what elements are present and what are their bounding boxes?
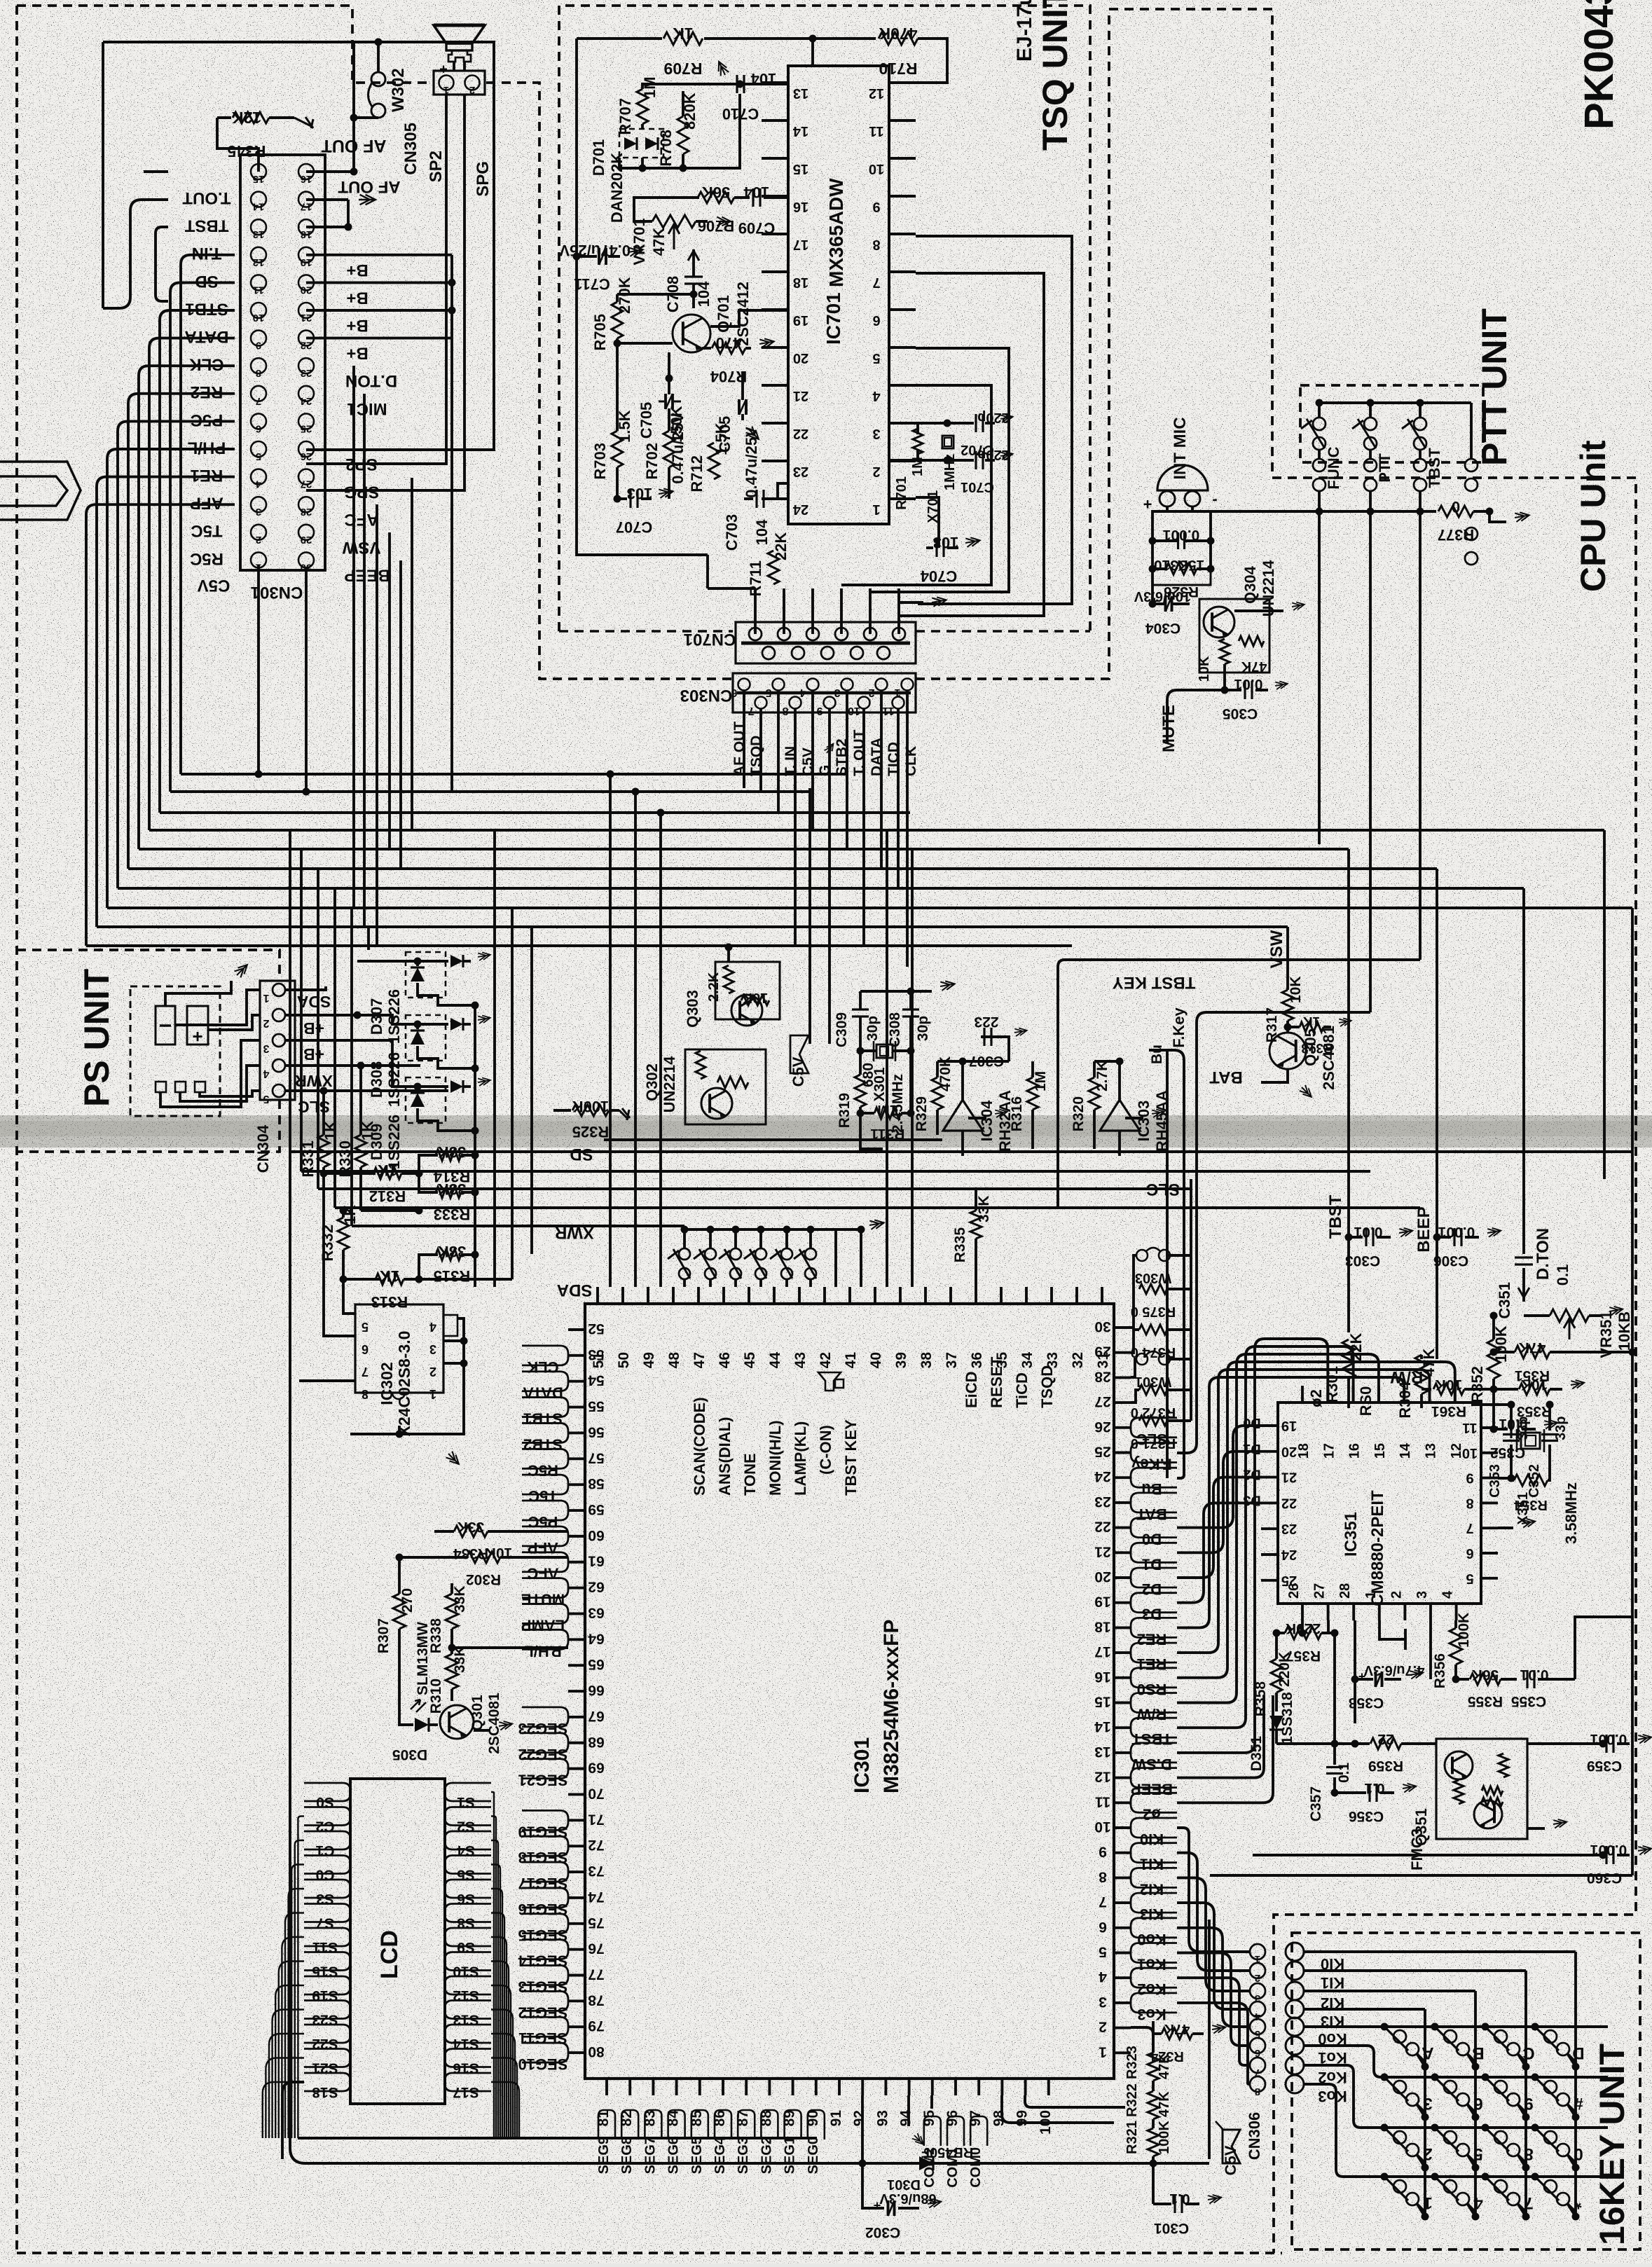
wire pin16 route — [1177, 1362, 1455, 1678]
capacitor C702 220p — [947, 422, 974, 425]
transistor Q305 2SC4081 — [1269, 1033, 1306, 1069]
IC301 pin 54 tag DATA — [522, 1372, 568, 1391]
svg-text:94: 94 — [898, 2110, 914, 2127]
svg-text:69: 69 — [588, 1760, 604, 1776]
capacitor C303 0.01 — [1349, 1236, 1363, 1239]
svg-text:DAN202K: DAN202K — [608, 153, 626, 223]
resistor R359 22 — [1355, 1742, 1370, 1745]
IC302 pin4 stub box — [443, 1315, 457, 1336]
wire D307 out — [418, 983, 475, 1005]
svg-text:10K: 10K — [1197, 656, 1212, 682]
svg-text:B+: B+ — [346, 344, 368, 363]
IC301 pin 25 tag F.Key — [1131, 1443, 1177, 1463]
svg-text:0.001: 0.001 — [1162, 527, 1199, 543]
CN304 pin 4 — [273, 1059, 285, 1072]
IC301 pin 44 — [773, 1287, 776, 1304]
LCD sweep right 0 — [491, 1792, 494, 2138]
svg-text:22: 22 — [301, 340, 312, 352]
diode D307 1SS226 dashed box — [406, 952, 446, 998]
IC351 bottom pin 1 — [1378, 1604, 1381, 1620]
resistor R333 33K — [419, 1173, 438, 1192]
Bu route — [1166, 1050, 1169, 1478]
svg-text:8: 8 — [1524, 2144, 1533, 2163]
svg-text:80: 80 — [588, 2044, 604, 2060]
TBST KEY route — [1072, 958, 1420, 961]
CN301 pin 17 — [298, 192, 314, 207]
svg-text:0.001: 0.001 — [1590, 1731, 1627, 1747]
wire pin4 to key Ko2 — [1177, 1978, 1250, 2065]
svg-text:27: 27 — [1312, 1583, 1328, 1599]
IC701 pin 4 — [889, 384, 916, 387]
svg-text:R301: R301 — [1323, 1366, 1341, 1403]
svg-text:9: 9 — [1524, 2094, 1533, 2113]
IC301 pin 68 tag SEG22 — [522, 1733, 568, 1753]
svg-text:R/W: R/W — [1136, 1706, 1166, 1723]
svg-text:R335: R335 — [952, 1227, 968, 1263]
svg-text:TSQD: TSQD — [1038, 1365, 1056, 1408]
svg-text:D301: D301 — [887, 2177, 921, 2192]
LCD sweep right 6 — [491, 1937, 507, 2138]
svg-text:Q304: Q304 — [1241, 565, 1259, 604]
wire D308 input — [357, 1015, 418, 1024]
svg-text:ANS(DIAL): ANS(DIAL) — [716, 1417, 734, 1496]
IC301 pin 2 — [1114, 2027, 1131, 2030]
IC701 pin 5 — [889, 346, 916, 349]
LCD sweep right 4 — [491, 1889, 502, 2138]
svg-text:100K: 100K — [1157, 2121, 1172, 2154]
resistor R326 15K — [1166, 563, 1197, 574]
LCD pin S11 — [304, 1928, 350, 1946]
svg-text:SEG2: SEG2 — [759, 2137, 774, 2174]
svg-text:R5C: R5C — [528, 1461, 558, 1479]
IC301 pin 31 — [1101, 1287, 1103, 1304]
svg-text:C: C — [1522, 2044, 1534, 2062]
svg-text:77: 77 — [588, 1966, 604, 1983]
svg-text:D351: D351 — [1248, 1736, 1265, 1772]
svg-text:10K: 10K — [486, 1545, 513, 1561]
svg-text:3: 3 — [834, 687, 840, 698]
TSQ UNIT dashed box — [559, 6, 1090, 631]
bus wire y=1240 — [128, 867, 1437, 870]
tag SEG8 — [621, 2110, 638, 2139]
svg-text:R345: R345 — [227, 142, 266, 160]
wire drop x=505 — [352, 366, 355, 908]
CN301 pin 22 — [298, 331, 314, 346]
svg-text:R371 0: R371 0 — [1131, 1435, 1176, 1451]
resistor R331 1K — [318, 1135, 329, 1167]
svg-text:1: 1 — [1363, 1591, 1379, 1599]
IC701 pin 19 — [762, 308, 788, 311]
IC301 pin 60 — [568, 1535, 585, 1538]
LCD sweep left 11 — [263, 2082, 304, 2138]
svg-text:C703: C703 — [723, 514, 741, 551]
switch PTT — [1367, 399, 1375, 407]
CN301 pin 3 — [251, 497, 266, 512]
svg-text:SEG15: SEG15 — [518, 1927, 568, 1944]
PTT right rail — [1470, 403, 1473, 459]
svg-text:CN305: CN305 — [401, 123, 420, 175]
wire Q303 top — [727, 947, 730, 962]
IC301 pin 23 — [1114, 1501, 1131, 1504]
CN306 pin 2 — [1250, 1963, 1265, 1978]
svg-text:57: 57 — [588, 1449, 604, 1466]
svg-text:Ko0: Ko0 — [1137, 1931, 1166, 1948]
IC301 pin 57 — [568, 1457, 585, 1460]
IC301 pin 20 — [1114, 1576, 1131, 1579]
wire CN301 pin 10 — [160, 310, 235, 813]
svg-text:78: 78 — [588, 1992, 605, 2008]
IC301 pin 76 — [568, 1948, 585, 1951]
svg-text:14: 14 — [1398, 1442, 1413, 1459]
LCD sweep right 1 — [491, 1817, 496, 2139]
wire CN301 pin 12 — [181, 255, 235, 774]
LCD pin S6 — [445, 1880, 491, 1898]
LCD sweep right 3 — [491, 1865, 500, 2139]
diode D308 1SS226 dashed box — [406, 1015, 446, 1061]
IC301 pin 40 — [874, 1287, 876, 1304]
svg-text:C303: C303 — [1345, 1253, 1380, 1269]
capacitor C306 0.001 — [1437, 1236, 1451, 1239]
svg-text:DATA: DATA — [184, 327, 228, 346]
svg-text:91: 91 — [828, 2110, 844, 2127]
svg-text:13: 13 — [1094, 1744, 1110, 1760]
IC301 pin 89 — [792, 2079, 794, 2095]
svg-text:R701: R701 — [894, 476, 909, 510]
svg-text:ø2: ø2 — [1307, 1389, 1325, 1407]
svg-text:C359: C359 — [1587, 1758, 1622, 1774]
svg-text:16KEY UNIT: 16KEY UNIT — [1592, 2044, 1632, 2245]
IC301 pin 5 tag Ko1 — [1131, 1943, 1177, 1963]
wire mid drop x=414 — [289, 830, 291, 1152]
IC301 pin 25 — [1114, 1452, 1131, 1454]
svg-text:30p: 30p — [865, 1016, 881, 1041]
svg-text:2: 2 — [469, 84, 475, 96]
IC301 pin 7 — [1114, 1901, 1131, 1904]
IC301 pin 41 — [848, 1287, 851, 1304]
IC351 left pin 23 — [1261, 1527, 1278, 1530]
svg-text:3: 3 — [429, 1342, 436, 1356]
resistor R712 1.5K — [708, 443, 720, 479]
svg-text:RS0: RS0 — [1137, 1681, 1167, 1698]
capacitor C701 220p — [947, 459, 974, 462]
CN301 pin 14 — [251, 192, 266, 207]
svg-text:C307: C307 — [969, 1053, 1004, 1069]
svg-text:+: + — [1151, 594, 1159, 608]
IC351 bottom pin 3 — [1429, 1604, 1432, 1620]
wire CN303 drop 8 — [880, 786, 883, 869]
svg-text:D.TON: D.TON — [1534, 1228, 1553, 1280]
IC301 pin 23 tag BAT — [1131, 1493, 1177, 1513]
IC301 pin 61 — [568, 1561, 585, 1564]
IC701 pin 22 — [762, 422, 788, 425]
svg-text:19: 19 — [1281, 1418, 1297, 1433]
function switch 2 — [707, 1226, 715, 1234]
resistor R315 33K — [419, 1255, 438, 1279]
svg-text:C304: C304 — [1145, 620, 1181, 636]
wire CN301 pin 3 — [86, 504, 235, 946]
wire pin17 route — [1177, 1370, 1430, 1653]
svg-text:7: 7 — [1466, 1520, 1473, 1536]
IC301 pin 77 — [568, 1974, 585, 1977]
IC301 pin 18 — [1114, 1626, 1131, 1629]
IC301 pin 52 — [568, 1328, 585, 1331]
capacitor C705 0.47u/25V first — [664, 394, 667, 409]
svg-text:+B: +B — [303, 1045, 324, 1063]
resistor R361 10K — [1422, 1388, 1431, 1391]
wire BEEP drop — [1436, 869, 1438, 1205]
battery ground — [165, 981, 231, 1006]
capacitor C703 104 — [744, 497, 753, 500]
svg-text:CLK: CLK — [903, 746, 919, 776]
svg-text:Ko3: Ko3 — [1318, 2088, 1347, 2105]
resistor R352 100K — [1487, 1339, 1500, 1379]
CN301 pin 19 — [298, 247, 314, 263]
svg-text:103: 103 — [627, 485, 653, 502]
svg-text:7: 7 — [256, 395, 261, 407]
svg-text:33K: 33K — [457, 1519, 485, 1535]
svg-text:3: 3 — [256, 506, 261, 518]
svg-text:P5C: P5C — [191, 411, 223, 429]
resistor R356 100K — [1450, 1628, 1462, 1665]
svg-text:LCD: LCD — [376, 1930, 403, 1979]
diode D309 vertical — [416, 1087, 419, 1091]
wire CN303 drop 1 — [759, 786, 762, 792]
wire PTT TBST down — [1369, 511, 1372, 1012]
bus wire y=1697 — [318, 1187, 1191, 1190]
tag bus — [298, 2137, 817, 2139]
svg-text:PH/L: PH/L — [188, 438, 226, 457]
svg-text:SEG18: SEG18 — [518, 1849, 568, 1866]
key A — [1381, 2023, 1389, 2031]
STB2 ground tick — [824, 742, 837, 755]
svg-text:ø2: ø2 — [1143, 1805, 1161, 1823]
svg-text:47K: 47K — [1164, 2021, 1190, 2037]
svg-text:104: 104 — [695, 281, 713, 307]
IC301 pin 64 — [568, 1638, 585, 1641]
wire D308 out — [418, 1046, 475, 1068]
wire CN303 drop 4 — [811, 786, 814, 830]
crystal X301 2.45MHz — [860, 1049, 876, 1052]
IC301 pin 17 tag RE1 — [1131, 1643, 1177, 1662]
LCD sweep left 10 — [266, 2058, 304, 2139]
CN301 pin 5 — [251, 441, 266, 457]
IC351 top pin 15 — [1377, 1386, 1380, 1403]
CN301 pin 12 — [251, 247, 266, 263]
svg-text:21: 21 — [301, 312, 312, 324]
svg-text:10KB: 10KB — [1616, 1311, 1633, 1351]
CN304 pin 5 — [273, 1084, 285, 1097]
svg-text:3: 3 — [1423, 2094, 1432, 2113]
wire TSQ left rail — [577, 39, 708, 555]
bus wire y=1672 — [301, 1170, 1370, 1173]
wire CN303 drop 0 — [743, 774, 745, 786]
resistor R312 1K — [324, 1172, 376, 1175]
wire AF OUT loop — [306, 170, 354, 173]
C-ON speaker label pin 42 — [818, 1372, 844, 1391]
wire B+ pin19 — [306, 254, 452, 256]
svg-text:Bu: Bu — [1141, 1480, 1162, 1498]
svg-text:11: 11 — [869, 123, 883, 139]
svg-text:C705: C705 — [716, 416, 734, 453]
svg-text:9: 9 — [872, 199, 880, 214]
svg-text:KI1: KI1 — [1321, 1974, 1344, 1992]
svg-text:220K: 220K — [1286, 1620, 1321, 1636]
svg-text:79: 79 — [588, 2018, 604, 2034]
svg-text:1SS318: 1SS318 — [1279, 1692, 1295, 1744]
LCD sweep left 3 — [289, 1889, 304, 2138]
CN301 pin 2 — [251, 525, 266, 540]
svg-text:KI2: KI2 — [1140, 1880, 1164, 1898]
IC301 pin 26 — [1114, 1426, 1131, 1429]
IC351 right pin 6 — [1481, 1552, 1498, 1555]
svg-text:1: 1 — [263, 992, 269, 1004]
IC301 pin 64 tag P.H/L — [522, 1629, 568, 1649]
svg-text:15K: 15K — [1178, 557, 1205, 573]
C5V flag — [1223, 2130, 1240, 2163]
resistor R707 1M — [637, 89, 648, 124]
connector CN305 — [434, 71, 485, 95]
svg-text:13: 13 — [793, 85, 808, 101]
svg-text:C309: C309 — [834, 1012, 850, 1047]
svg-text:2.2K: 2.2K — [706, 972, 722, 1002]
IC301 pin 22 — [1114, 1527, 1131, 1529]
wire long c360 feed — [1253, 1854, 1603, 1856]
svg-text:68: 68 — [588, 1734, 605, 1750]
svg-text:6: 6 — [1473, 2094, 1482, 2113]
svg-text:17: 17 — [301, 201, 312, 213]
CN301 pin 4 — [251, 469, 266, 485]
svg-text:4: 4 — [429, 1320, 436, 1334]
svg-text:18: 18 — [1094, 1618, 1111, 1634]
LCD left ribbon wires — [282, 2082, 304, 2159]
resistors R321 R322 R323 stack — [1148, 2053, 1159, 2081]
svg-text:C356: C356 — [1349, 1808, 1384, 1824]
wire CN303 drop 10 — [906, 786, 909, 967]
svg-text:100K: 100K — [1456, 1613, 1472, 1648]
svg-text:23: 23 — [1094, 1494, 1110, 1510]
svg-text:17: 17 — [793, 237, 808, 252]
IC302 wires — [343, 1279, 355, 1314]
svg-text:55: 55 — [588, 1398, 605, 1414]
svg-text:18: 18 — [1296, 1443, 1312, 1459]
wire CN303 drop 5 — [828, 786, 831, 1044]
LCD sweep right 2 — [491, 1840, 498, 2138]
svg-text:KI1: KI1 — [1140, 1856, 1164, 1873]
IC351 left pin 20 — [1261, 1450, 1278, 1453]
capacitor C357 0.1 — [1333, 1744, 1336, 1765]
svg-text:4: 4 — [1254, 2011, 1260, 2023]
IC701 pin 17 — [762, 233, 788, 235]
transistor Q301 2SC4081 — [440, 1705, 474, 1739]
key 5 — [1431, 2124, 1439, 2132]
svg-text:C301: C301 — [1154, 2220, 1190, 2236]
svg-text:1: 1 — [429, 1387, 436, 1401]
crystal X701 1MHz cluster — [889, 422, 918, 425]
svg-text:7: 7 — [362, 1365, 369, 1379]
CN301 pin 24 — [298, 386, 314, 401]
wire pin40 up gnd rail — [860, 1229, 862, 1287]
LCD pin S10 — [445, 1952, 491, 1971]
Ko row wires — [1304, 2025, 1608, 2028]
svg-text:5: 5 — [263, 1093, 269, 1105]
CN301 pin 28 — [298, 497, 314, 512]
IC301 pin 56 tag STB2 — [522, 1423, 568, 1442]
IC301 pin 73 tag SEG17 — [522, 1862, 568, 1882]
svg-text:100K: 100K — [572, 1098, 610, 1115]
svg-text:R712: R712 — [688, 455, 705, 492]
svg-text:SPG: SPG — [344, 483, 380, 502]
wires IC351 bottom pins 1-2 — [1379, 1620, 1405, 1639]
svg-text:14: 14 — [1094, 1718, 1111, 1735]
resistor R335 33K — [970, 1211, 982, 1239]
key 1 — [1381, 2173, 1389, 2181]
svg-text:0.01: 0.01 — [1354, 1224, 1382, 1240]
svg-text:RE2: RE2 — [191, 383, 223, 401]
speaker SP — [434, 25, 485, 43]
svg-text:21: 21 — [793, 388, 808, 404]
svg-text:15: 15 — [253, 173, 265, 185]
svg-text:RE1: RE1 — [1137, 1655, 1167, 1673]
wire IC351 pin3 down — [1429, 1620, 1432, 1679]
IC301 pin 34 — [1025, 1287, 1028, 1304]
IC302 X24C02S8-3.0 body — [355, 1304, 443, 1393]
svg-text:EiCD: EiCD — [963, 1371, 980, 1408]
bus wire y=1212 — [139, 848, 1349, 850]
KI verticals — [1574, 1952, 1577, 2214]
svg-text:C709: C709 — [738, 219, 776, 237]
svg-text:6: 6 — [362, 1342, 369, 1356]
CN301 pin 7 — [251, 386, 266, 401]
IC301 pin 27 — [1114, 1401, 1131, 1404]
F.Key route — [1177, 1012, 1370, 1453]
wire Q305 emitter — [1261, 1069, 1288, 1082]
IC301 pin 19 — [1114, 1601, 1131, 1604]
svg-text:23: 23 — [301, 367, 312, 379]
key 4 — [1431, 2173, 1439, 2181]
svg-text:54: 54 — [588, 1372, 605, 1389]
IC351 pin7 ground — [1498, 1527, 1513, 1529]
svg-text:1: 1 — [1099, 2044, 1107, 2060]
IC301 pin 86 — [722, 2079, 724, 2095]
LCD pin C0 — [304, 1856, 350, 1874]
svg-text:47: 47 — [691, 1352, 708, 1368]
svg-text:C306: C306 — [1433, 1253, 1468, 1269]
bus wire y=1185 — [149, 829, 1604, 832]
function switch 3 — [732, 1226, 740, 1234]
resistor R334 33K — [454, 1526, 488, 1537]
wire pin7 to key KI3 — [1177, 1903, 1250, 2009]
svg-text:R359: R359 — [1368, 1758, 1403, 1774]
svg-text:TBST KEY: TBST KEY — [842, 1419, 860, 1496]
svg-text:CM8880-2PEIT: CM8880-2PEIT — [1368, 1490, 1387, 1606]
svg-text:10: 10 — [1462, 1445, 1478, 1461]
IC701 pin 2 — [889, 460, 916, 462]
IC301 pin 12 — [1114, 1777, 1131, 1779]
wire Q304 collector gnd — [1234, 609, 1283, 612]
svg-text:9: 9 — [256, 340, 261, 352]
wire pin13 route — [1177, 1339, 1328, 1753]
wire FUNC down — [1318, 511, 1321, 844]
svg-text:59: 59 — [588, 1501, 604, 1517]
resistor R314 33K — [419, 1155, 438, 1173]
svg-text:60: 60 — [588, 1527, 604, 1543]
resistor R311 1M — [860, 1112, 874, 1115]
svg-text:17: 17 — [1321, 1443, 1337, 1459]
svg-text:5: 5 — [765, 687, 771, 698]
wire CN301 pin 6 — [118, 421, 235, 888]
svg-text:56: 56 — [588, 1424, 604, 1440]
resistor R310 33K — [446, 1654, 458, 1689]
